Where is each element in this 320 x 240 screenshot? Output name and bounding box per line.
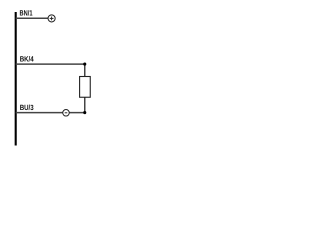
- svg-text:BU/3: BU/3: [20, 103, 34, 112]
- svg-text:BK/4: BK/4: [20, 55, 35, 64]
- svg-text:BN/1: BN/1: [20, 9, 34, 18]
